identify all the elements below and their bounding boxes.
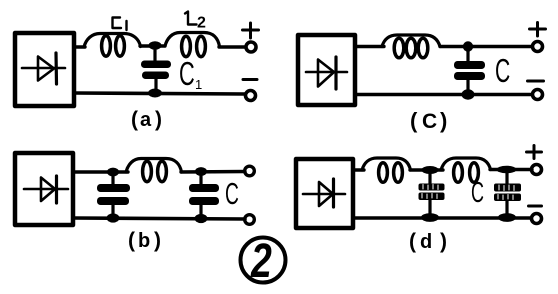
label L1	[113, 18, 127, 31]
capacitor C first (b)	[97, 174, 130, 216]
svg-text:): )	[154, 229, 161, 252]
minus sign (a)	[243, 78, 257, 81]
diode D (b)	[24, 176, 68, 203]
capacitor first with value text (d)	[419, 172, 445, 216]
svg-text:C: C	[495, 52, 510, 89]
svg-text:(: (	[128, 229, 135, 252]
wire L to node (b)	[181, 170, 245, 174]
capacitor C1 (a)	[141, 49, 171, 90]
wire L1 to node A1	[140, 44, 165, 47]
svg-text:2: 2	[250, 235, 272, 289]
rectifier box (b)	[15, 153, 73, 225]
svg-text:): )	[440, 230, 447, 253]
diode D (a)	[22, 53, 65, 84]
label (a)	[131, 108, 162, 131]
output terminal - (c)	[533, 90, 543, 100]
value label C (d)	[471, 177, 484, 209]
minus sign (d)	[529, 205, 542, 208]
svg-text:C: C	[225, 178, 239, 212]
inductor first choke (d)	[362, 158, 411, 182]
diode D (c)	[306, 57, 347, 89]
junction node A3 (b)	[107, 168, 119, 177]
junction node B3 (b)	[107, 213, 120, 222]
svg-text:): )	[440, 108, 447, 133]
value label C (b)	[225, 178, 239, 212]
wire box (d) to L1 (d)	[353, 168, 364, 171]
rectifier box (a)	[15, 33, 74, 106]
top wire (b)	[73, 170, 128, 173]
wire L2 to + terminal (a)	[219, 45, 245, 48]
wire box (c) to L	[355, 45, 384, 48]
output terminal bottom (b)	[245, 215, 255, 225]
label L2	[185, 12, 197, 25]
junction node B6 (d)	[498, 213, 516, 222]
capacitor C second (b)	[189, 173, 219, 216]
rectifier box (d)	[296, 159, 353, 228]
bottom wire (a)	[74, 93, 245, 94]
value label C (c)	[495, 52, 510, 89]
svg-text:C: C	[471, 177, 484, 209]
output terminal + (d)	[532, 165, 542, 175]
output terminal - (a)	[246, 91, 256, 101]
label (C)	[410, 108, 447, 133]
svg-text:d: d	[420, 231, 432, 253]
junction node A2 (c)	[463, 41, 473, 51]
inductor L1	[84, 34, 141, 57]
wire box (a) to L1	[74, 45, 85, 48]
svg-text:C: C	[422, 110, 437, 133]
wire L2 to + terminal (d)	[490, 168, 532, 171]
junction node B1 (a)	[148, 89, 162, 98]
plus sign (d)	[527, 146, 542, 159]
plus sign (a)	[243, 23, 259, 38]
figure number 2 digit	[250, 235, 272, 289]
figure number 2 badge	[241, 238, 286, 283]
output terminal + (a)	[246, 42, 256, 52]
output terminal top (b)	[245, 166, 255, 176]
junction node A1 (a)	[149, 41, 162, 50]
minus sign (c)	[528, 80, 544, 83]
svg-text:a: a	[140, 109, 152, 131]
value label C1	[179, 55, 202, 92]
svg-text:(: (	[409, 230, 416, 253]
output terminal - (d)	[532, 214, 542, 224]
inductor L (c)	[382, 35, 440, 58]
plus sign (c)	[530, 23, 546, 37]
svg-text:C: C	[179, 55, 195, 92]
junction node B2 (c)	[462, 89, 475, 99]
bottom wire (c)	[355, 93, 531, 97]
svg-text:(: (	[410, 108, 418, 133]
bottom wire (d)	[353, 216, 531, 220]
label (d)	[409, 230, 447, 253]
junction node A4 (b)	[195, 167, 207, 176]
capacitor C (c)	[454, 48, 485, 91]
junction node B4 (b)	[195, 214, 208, 223]
svg-text:): )	[155, 108, 162, 131]
svg-text:(: (	[131, 108, 138, 131]
svg-text:b: b	[138, 230, 150, 252]
output terminal + (c)	[533, 42, 543, 52]
rectifier box (c)	[298, 35, 355, 105]
inductor L (b)	[126, 159, 182, 182]
inductor L2	[165, 33, 220, 57]
wire L1 to node (d)	[410, 168, 443, 171]
diode D (d)	[303, 179, 345, 207]
junction node A5 (d)	[422, 166, 439, 174]
junction node A6 (d)	[497, 166, 517, 174]
svg-text:1: 1	[195, 77, 202, 92]
bottom wire (b)	[73, 218, 245, 219]
inductor second choke (d)	[441, 158, 491, 182]
label (b)	[128, 229, 161, 252]
wire L to + terminal (c)	[440, 45, 532, 48]
capacitor second C (d)	[494, 171, 521, 216]
junction node B5 (d)	[421, 213, 439, 222]
svg-text:2: 2	[197, 15, 206, 32]
